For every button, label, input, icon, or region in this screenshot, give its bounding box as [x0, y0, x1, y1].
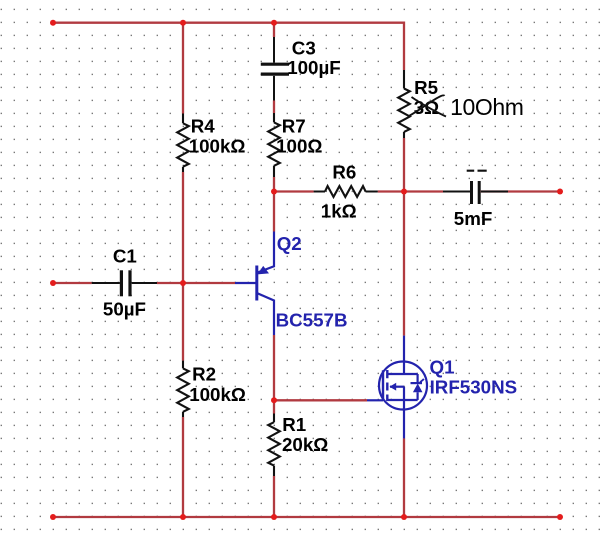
- svg-text:20kΩ: 20kΩ: [282, 434, 328, 455]
- svg-text:100kΩ: 100kΩ: [189, 384, 246, 405]
- svg-text:R5: R5: [414, 77, 438, 98]
- resistor R6: [314, 186, 378, 197]
- node: endpoint dot bottom-right (560,517): [557, 514, 563, 520]
- resistor R5: [398, 70, 410, 138]
- wire mid rail y=191: [274, 190, 560, 192]
- svg-text:R2: R2: [192, 363, 216, 384]
- source lead: [403, 400, 405, 438]
- svg-text:C3: C3: [292, 37, 316, 58]
- resistor R2: [177, 361, 189, 417]
- wire top rail: [53, 23, 404, 70]
- svg-text:R4: R4: [191, 116, 216, 137]
- capacitor C3: [261, 37, 289, 101]
- drain lead: [403, 336, 405, 374]
- svg-text:10Ohm: 10Ohm: [450, 94, 523, 120]
- svg-text:R6: R6: [332, 161, 356, 182]
- diode cathode bar: [411, 382, 423, 384]
- svg-text:100kΩ: 100kΩ: [189, 136, 246, 157]
- source arrow line: [390, 386, 404, 388]
- wire gate y=400.3: [274, 399, 367, 401]
- Q1 body diode triangle: [413, 384, 423, 393]
- node: endpoint dot input left (53,283): [50, 280, 56, 286]
- resistor R7: [268, 113, 280, 177]
- svg-text:Q1: Q1: [430, 357, 455, 378]
- crossed-out marks above 5mF capacitor: [467, 170, 487, 172]
- svg-text:R7: R7: [282, 116, 306, 137]
- emitter diagonal + lead: [257, 232, 274, 273]
- node: endpoint dot output right (560,191.5): [557, 189, 563, 195]
- collector diagonal + lead: [257, 293, 274, 335]
- node: junction dot C1 wire / left vertical (183,283): [180, 280, 186, 286]
- capacitor 5mF: [443, 181, 508, 204]
- svg-text:C1: C1: [113, 245, 137, 266]
- diode verticals: [417, 374, 419, 400]
- svg-text:BC557B: BC557B: [276, 310, 348, 331]
- resistor R1: [268, 414, 280, 477]
- node: junction dot R7 bottom / R6 rail (274,191.5): [271, 189, 277, 195]
- gate bar: [382, 370, 384, 401]
- base lead: [235, 282, 257, 284]
- capacitor C1: [92, 270, 157, 296]
- Q2 emitter arrow: [258, 266, 270, 275]
- node: junction dot collector / gate / R1 (274,400.3): [271, 397, 277, 403]
- svg-text:100µF: 100µF: [287, 57, 341, 78]
- transistor Q1 (IRF530NS MOSFET): [367, 336, 427, 439]
- wire right vertical x=404: [403, 138, 405, 517]
- node: junction dot bottom rail / Q1 source (404,517): [401, 514, 407, 520]
- wire bottom rail: [53, 516, 560, 518]
- Q1 source arrow head: [390, 383, 397, 391]
- base bar: [255, 266, 258, 301]
- scribble cross-out over 3Ω: [408, 95, 445, 116]
- node: junction dot bottom rail / R2 (183,517): [180, 514, 186, 520]
- svg-text:100Ω: 100Ω: [276, 135, 322, 156]
- node: junction dot R5 bottom / mid rail (404,191.5): [401, 189, 407, 195]
- circle: [379, 362, 427, 410]
- gate lead: [367, 399, 383, 401]
- svg-text:R1: R1: [282, 414, 306, 435]
- bottom horizontal: [387, 399, 418, 401]
- node: junction dot top rail / R4 branch (183,22.7): [180, 20, 186, 26]
- svg-text:5mF: 5mF: [454, 208, 493, 229]
- wire C1 row y=283: [53, 282, 235, 284]
- node: junction dot top rail / C3 branch (274,22.7): [271, 20, 277, 26]
- source vertical: [403, 387, 405, 400]
- diode tick: [420, 379, 424, 384]
- node: endpoint dot top-left (53,22.7): [50, 20, 56, 26]
- svg-text:Q2: Q2: [277, 233, 302, 254]
- svg-text:IRF530NS: IRF530NS: [430, 376, 518, 397]
- channel segments: [386, 370, 388, 401]
- svg-text:1kΩ: 1kΩ: [321, 200, 357, 221]
- node: endpoint dot bottom-left (53,517): [50, 514, 56, 520]
- wire middle vertical x=274: [273, 23, 275, 517]
- resistor R4: [177, 114, 189, 173]
- svg-text:50µF: 50µF: [103, 298, 146, 319]
- wire left vertical x=183: [182, 23, 184, 517]
- top horizontal: [387, 373, 418, 375]
- transistor Q2 (BC557B PNP): [235, 232, 274, 336]
- node: junction dot bottom rail / R1 (274,517): [271, 514, 277, 520]
